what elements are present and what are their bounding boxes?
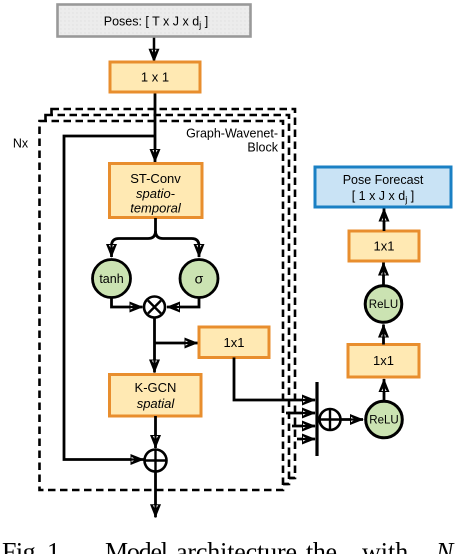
node multiply [144, 297, 165, 318]
wire 1x1 mid to bar [234, 358, 315, 401]
caption Fig. 1 [2, 538, 455, 554]
bar summation [315, 382, 318, 456]
wire multiply branch to 1x1 mid [155, 342, 198, 345]
svg-text:1 x 1: 1 x 1 [141, 70, 169, 85]
wire skip stub 2 [286, 412, 315, 415]
node ReLU bottom [366, 401, 403, 438]
svg-text:K-GCN: K-GCN [135, 380, 177, 395]
dashed block front [40, 121, 284, 490]
box ST-Conv [110, 164, 203, 218]
svg-text:Block: Block [247, 141, 278, 155]
wire plus right to ReLU bottom [341, 418, 364, 421]
box 1x1 upper-right [349, 231, 419, 261]
wire sigma to multiply [167, 298, 199, 308]
box Pose Forecast [315, 167, 451, 207]
wire ST-Conv to tanh [112, 218, 156, 257]
node plus [145, 450, 167, 472]
label Graph-Wavenet-Block [186, 127, 279, 155]
svg-text:1x1: 1x1 [373, 353, 394, 368]
wire plus to output [154, 472, 157, 518]
box 1x1 mid [199, 327, 269, 358]
box K-GCN [110, 375, 202, 417]
svg-text:tanh: tanh [99, 272, 123, 286]
wire skip stub 3 [292, 425, 315, 428]
wire 1x1 lower-right to ReLU top [382, 325, 385, 345]
svg-text:ReLU: ReLU [369, 415, 398, 427]
node plus right [320, 409, 341, 430]
svg-text:spatio-: spatio- [136, 186, 176, 201]
svg-text:ReLU: ReLU [369, 299, 398, 311]
node sigma [180, 260, 218, 298]
svg-text:Nx: Nx [13, 137, 29, 151]
wire ST-Conv to sigma [156, 231, 200, 257]
label Nx [13, 137, 29, 151]
svg-text:architecture: architecture [176, 538, 297, 554]
wire 1x1 to ST-Conv [154, 92, 157, 162]
svg-text:1x1: 1x1 [224, 335, 245, 350]
dashed block back [52, 109, 296, 478]
svg-text:with: with [362, 538, 408, 554]
svg-text:1x1: 1x1 [374, 239, 395, 254]
wire 1x1 upper-right to Pose Forecast [383, 209, 386, 232]
node ReLU top [365, 286, 402, 323]
wire K-GCN to plus [154, 416, 157, 448]
box 1x1 top [110, 62, 200, 92]
svg-text:Fig. 1.: Fig. 1. [2, 538, 66, 554]
svg-text:Model: Model [105, 538, 168, 554]
dashed block corner stubs [46, 110, 295, 484]
svg-text:N: N [435, 538, 455, 554]
wire tanh to multiply [112, 298, 143, 308]
wire residual skip [64, 136, 155, 460]
svg-text:Graph-Wavenet-: Graph-Wavenet- [186, 127, 278, 141]
box Poses [58, 5, 251, 37]
svg-text:σ: σ [195, 271, 204, 287]
svg-text:temporal: temporal [130, 201, 182, 216]
wire ReLU top to 1x1 upper-right [382, 263, 385, 286]
box 1x1 lower-right [348, 345, 419, 378]
wire ReLU bottom to 1x1 lower-right [383, 379, 386, 401]
wire skip stub 4 [297, 438, 315, 441]
svg-text:Pose Forecast: Pose Forecast [343, 173, 424, 187]
svg-text:spatial: spatial [137, 396, 176, 411]
dashed block middle [46, 115, 290, 484]
node tanh [93, 260, 131, 298]
svg-text:the: the [306, 538, 337, 554]
wire Poses to 1x1 [153, 38, 156, 62]
wire multiply to K-GCN [153, 318, 156, 373]
svg-text:ST-Conv: ST-Conv [130, 171, 181, 186]
